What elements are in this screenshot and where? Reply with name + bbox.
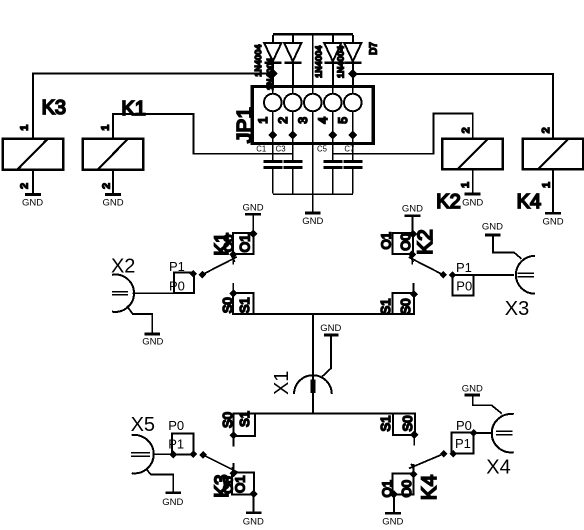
antenna connector X1 [271,323,341,395]
ground under K2 [462,194,483,208]
svg-text:P0: P0 [456,279,472,294]
K2 contact P square [453,275,474,296]
top supply bus wire [273,33,353,36]
svg-text:GND: GND [482,222,503,233]
svg-text:P1: P1 [456,260,472,275]
svg-text:5: 5 [336,117,350,124]
X5 shield wire to gnd [146,469,173,491]
relay contact K3 (gate O/S/P) [168,411,264,527]
connector JP1 box [252,87,373,144]
X5 shell arc [132,435,154,473]
junction node diode D1 / K3 / JP1 pin1 [268,69,278,79]
JP1 pin 1 [256,87,282,136]
relay coil K4 [523,139,584,170]
svg-text:X3: X3 [505,298,529,320]
svg-text:1N4004: 1N4004 [314,45,324,78]
relay coil K3 [3,139,64,170]
junction node JP1 pin4 / C5 [328,130,337,139]
X3 shell arc [516,256,535,294]
junction node K4 S bottom right [410,431,418,439]
junction node K2 O top right [409,230,418,239]
svg-text:GND: GND [302,216,323,227]
wire K3 pin1 to diode bus node [33,74,273,139]
X2 shell arc [112,275,134,312]
diode D1 1N4004 [264,35,281,87]
wire X4 signal to K4.P [474,432,493,434]
svg-text:C5: C5 [317,145,328,154]
junction node K4 P top right [470,429,478,437]
ground above X3 [485,234,501,237]
svg-text:P1: P1 [169,259,185,274]
JP1 pin 5 [336,87,362,136]
K4 S contact stub [413,435,415,446]
ground under K3 [22,195,43,209]
wire capacitor ground bus [273,193,353,195]
K1 contact S square [233,293,254,314]
capacitor C3 [276,135,303,194]
svg-text:2: 2 [460,127,472,133]
JP1 pin 3 [296,34,322,211]
K4 contact arm [409,454,444,469]
K4 contact P square [452,432,474,453]
antenna connector X3 [473,222,535,320]
svg-text:K4: K4 [418,474,441,500]
svg-text:GND: GND [382,517,403,528]
X5 center contact fork [131,453,150,457]
svg-text:K3: K3 [212,474,233,497]
svg-text:P1: P1 [168,436,184,451]
svg-text:K4: K4 [517,191,541,213]
svg-text:S0: S0 [400,416,415,432]
junction node K2 S top right [410,290,418,298]
wire X2 signal to K1.P [133,292,174,294]
K4 contact O square [393,473,414,494]
wire bottom bus K3.S to K4.S [255,412,393,414]
K3 S contact stub [232,435,234,446]
junction node K2 O bottom right [408,250,416,258]
K1 O contact stub [232,255,234,265]
svg-text:1: 1 [99,125,111,131]
wire X1 stem [312,314,314,414]
K1 contact arm tick [232,256,235,262]
X1 shield wire to gnd [322,336,331,376]
svg-text:4: 4 [316,117,330,124]
ground under K3 contact [246,511,262,514]
capacitor C7 [343,135,362,194]
wire K3 O to gnd [253,494,255,511]
X3 shield wire to gnd [493,236,522,259]
svg-text:S1: S1 [237,297,252,313]
capacitor C1 [256,135,282,194]
svg-text:2: 2 [100,183,112,189]
wire middle bus K1.S to K2.S [254,313,414,315]
ground under JP1 pin3 [302,213,323,227]
svg-text:1: 1 [541,182,553,188]
svg-text:GND: GND [402,204,423,215]
svg-text:O1: O1 [379,232,394,249]
K3 contact arm tick [232,467,235,473]
svg-text:K1: K1 [212,232,233,255]
diode D3 1N4004 [284,35,301,87]
svg-text:O0: O0 [399,480,414,497]
svg-text:2: 2 [540,127,552,133]
ground under K1 [102,195,123,209]
K1 contact O square [233,233,254,254]
antenna connector X5 [131,414,184,508]
K2 S contact stub [413,283,415,294]
K4 contact S square [393,413,415,434]
junction node K4 O top right [409,470,417,478]
junction node K3 P bottom left [169,450,177,458]
K1 S contact stub [232,283,234,294]
svg-text:GND: GND [162,497,183,508]
svg-text:P0: P0 [169,278,185,293]
svg-text:GND: GND [320,323,341,334]
junction node K3 O top left [230,469,238,477]
junction node K1 P corner [189,270,197,278]
svg-text:P0: P0 [168,418,184,433]
relay coil K1 [83,139,144,170]
wire X5 signal to K3.P [153,453,173,455]
svg-text:1: 1 [459,182,471,188]
antenna connector X2 [111,256,174,348]
svg-text:S1: S1 [237,411,252,427]
K2 contact arm tick [410,256,413,262]
svg-text:3: 3 [296,117,310,124]
junction node JP1 pin2 / C3 [288,130,297,139]
svg-text:O1: O1 [238,234,253,252]
svg-text:GND: GND [102,197,123,208]
wire K1 pin1 to C3 node [113,114,293,154]
ground under X2 [144,333,160,336]
X3 center contact fork [518,273,534,276]
X2 center contact fork [112,292,128,295]
svg-text:C7: C7 [344,145,354,154]
svg-text:K2: K2 [436,191,460,213]
K3 contact arm [203,455,237,472]
svg-text:GND: GND [462,197,483,208]
svg-text:P0: P0 [456,418,472,433]
junction node K3 S bottom left [230,431,238,439]
svg-text:P1: P1 [455,436,471,451]
X4 center contact fork [496,431,512,434]
X4 shield wire to gnd [473,396,502,413]
svg-text:GND: GND [542,217,563,228]
X1 center contact fork [311,379,315,393]
relay coil K2 [442,139,503,170]
wire X3 signal to K2.P [473,274,514,276]
svg-text:C1: C1 [256,145,266,154]
svg-text:X2: X2 [111,256,135,278]
relay contact K4 (gate O/S/P) [378,413,477,527]
junction node K1 O top right [249,230,258,239]
X4 shell arc [492,414,514,452]
K2 O contact stub [411,254,413,264]
ground above K2 contact [405,215,421,218]
wire K3 pin2 to gnd [32,170,34,194]
svg-text:GND: GND [22,197,43,208]
junction node K4 P bottom left [449,450,457,458]
svg-text:S0: S0 [398,299,413,315]
svg-text:K2: K2 [414,229,437,255]
wire K4 O to gnd [393,494,395,512]
ground under X5 [165,491,181,494]
svg-text:1: 1 [19,125,31,131]
svg-text:C3: C3 [276,145,286,154]
antenna connector X4 [462,384,514,479]
K3 contact arm arrowhead [199,451,207,459]
svg-text:1: 1 [256,117,270,124]
junction node K3 P bottom right [190,450,198,458]
svg-text:K1: K1 [121,98,145,120]
wire K2 pin2 to C5 node [333,114,473,154]
wire K4 pin2 to diode bus node [353,74,553,139]
K3 O contact stub [233,463,235,473]
K1 contact P square [174,272,194,293]
ground under K4 contact [385,512,401,515]
svg-text:2: 2 [276,117,290,124]
junction node K1 S top left [229,289,237,297]
diode D5 1N4004 [324,35,341,87]
junction node K3 O bottom right [250,490,258,498]
X1 shell arc [294,375,332,394]
junction node JP1 pin1 / C1 [268,130,277,139]
wire K1 pin2 to gnd [112,170,114,194]
svg-text:1N4004: 1N4004 [335,46,345,79]
svg-text:GND: GND [242,202,263,213]
ground above X1 [324,334,338,337]
K1 contact arm [202,257,237,275]
K3 contact P square [172,433,193,454]
svg-text:K3: K3 [42,97,66,119]
svg-text:X5: X5 [131,414,155,436]
diode D7 1N4004 [344,35,361,87]
junction node K4 O bottom left [390,490,398,498]
junction node K1 O bottom left [229,251,237,259]
K4 contact arm arrowhead [440,450,448,458]
svg-text:GND: GND [142,337,163,348]
wire K2 pin1 to gnd [472,169,474,193]
relay contact K1 (gate O/S/P) [169,202,264,314]
K2 contact arm arrowhead [440,271,448,279]
ground above K1 contact [245,213,261,216]
X2 shield wire to gnd [127,306,152,333]
capacitor C5 [317,135,342,194]
relay contact K2 (gate O/S/P) [378,204,473,315]
wire K1 O to gnd [252,216,254,234]
svg-text:S0: S0 [220,412,235,428]
svg-text:1N4004: 1N4004 [253,44,263,77]
svg-text:2: 2 [19,183,31,189]
svg-text:D7: D7 [368,42,379,55]
K3 contact O square [232,472,254,494]
wire K4 pin1 to gnd [552,169,554,212]
svg-text:S0: S0 [220,297,235,313]
JP1 pin 4 [316,87,342,136]
K1 contact arm arrowhead [199,271,207,279]
svg-text:GND: GND [462,384,483,395]
K2 contact S square [392,293,414,314]
K4 O contact stub [412,464,414,474]
svg-text:GND: GND [243,516,264,527]
K3 contact S square [233,413,255,435]
wire K2 O to gnd [412,217,414,234]
svg-text:S1: S1 [378,416,393,432]
svg-text:S1: S1 [378,299,393,315]
ground above X4 [465,394,481,397]
K2 contact arm [409,257,444,275]
K4 contact arm tick [411,464,414,471]
ground under K4 [542,213,563,227]
K2 contact O square [392,233,413,254]
JP1 pin 2 [276,87,302,136]
junction node JP1 pin5 / C7 [348,130,357,139]
svg-text:X1: X1 [271,371,293,395]
junction node diode D7 / K4 / JP1 pin5 [348,69,358,79]
junction node K2 P corner [449,271,457,279]
svg-text:X4: X4 [486,456,510,478]
svg-text:JP1: JP1 [233,107,256,143]
